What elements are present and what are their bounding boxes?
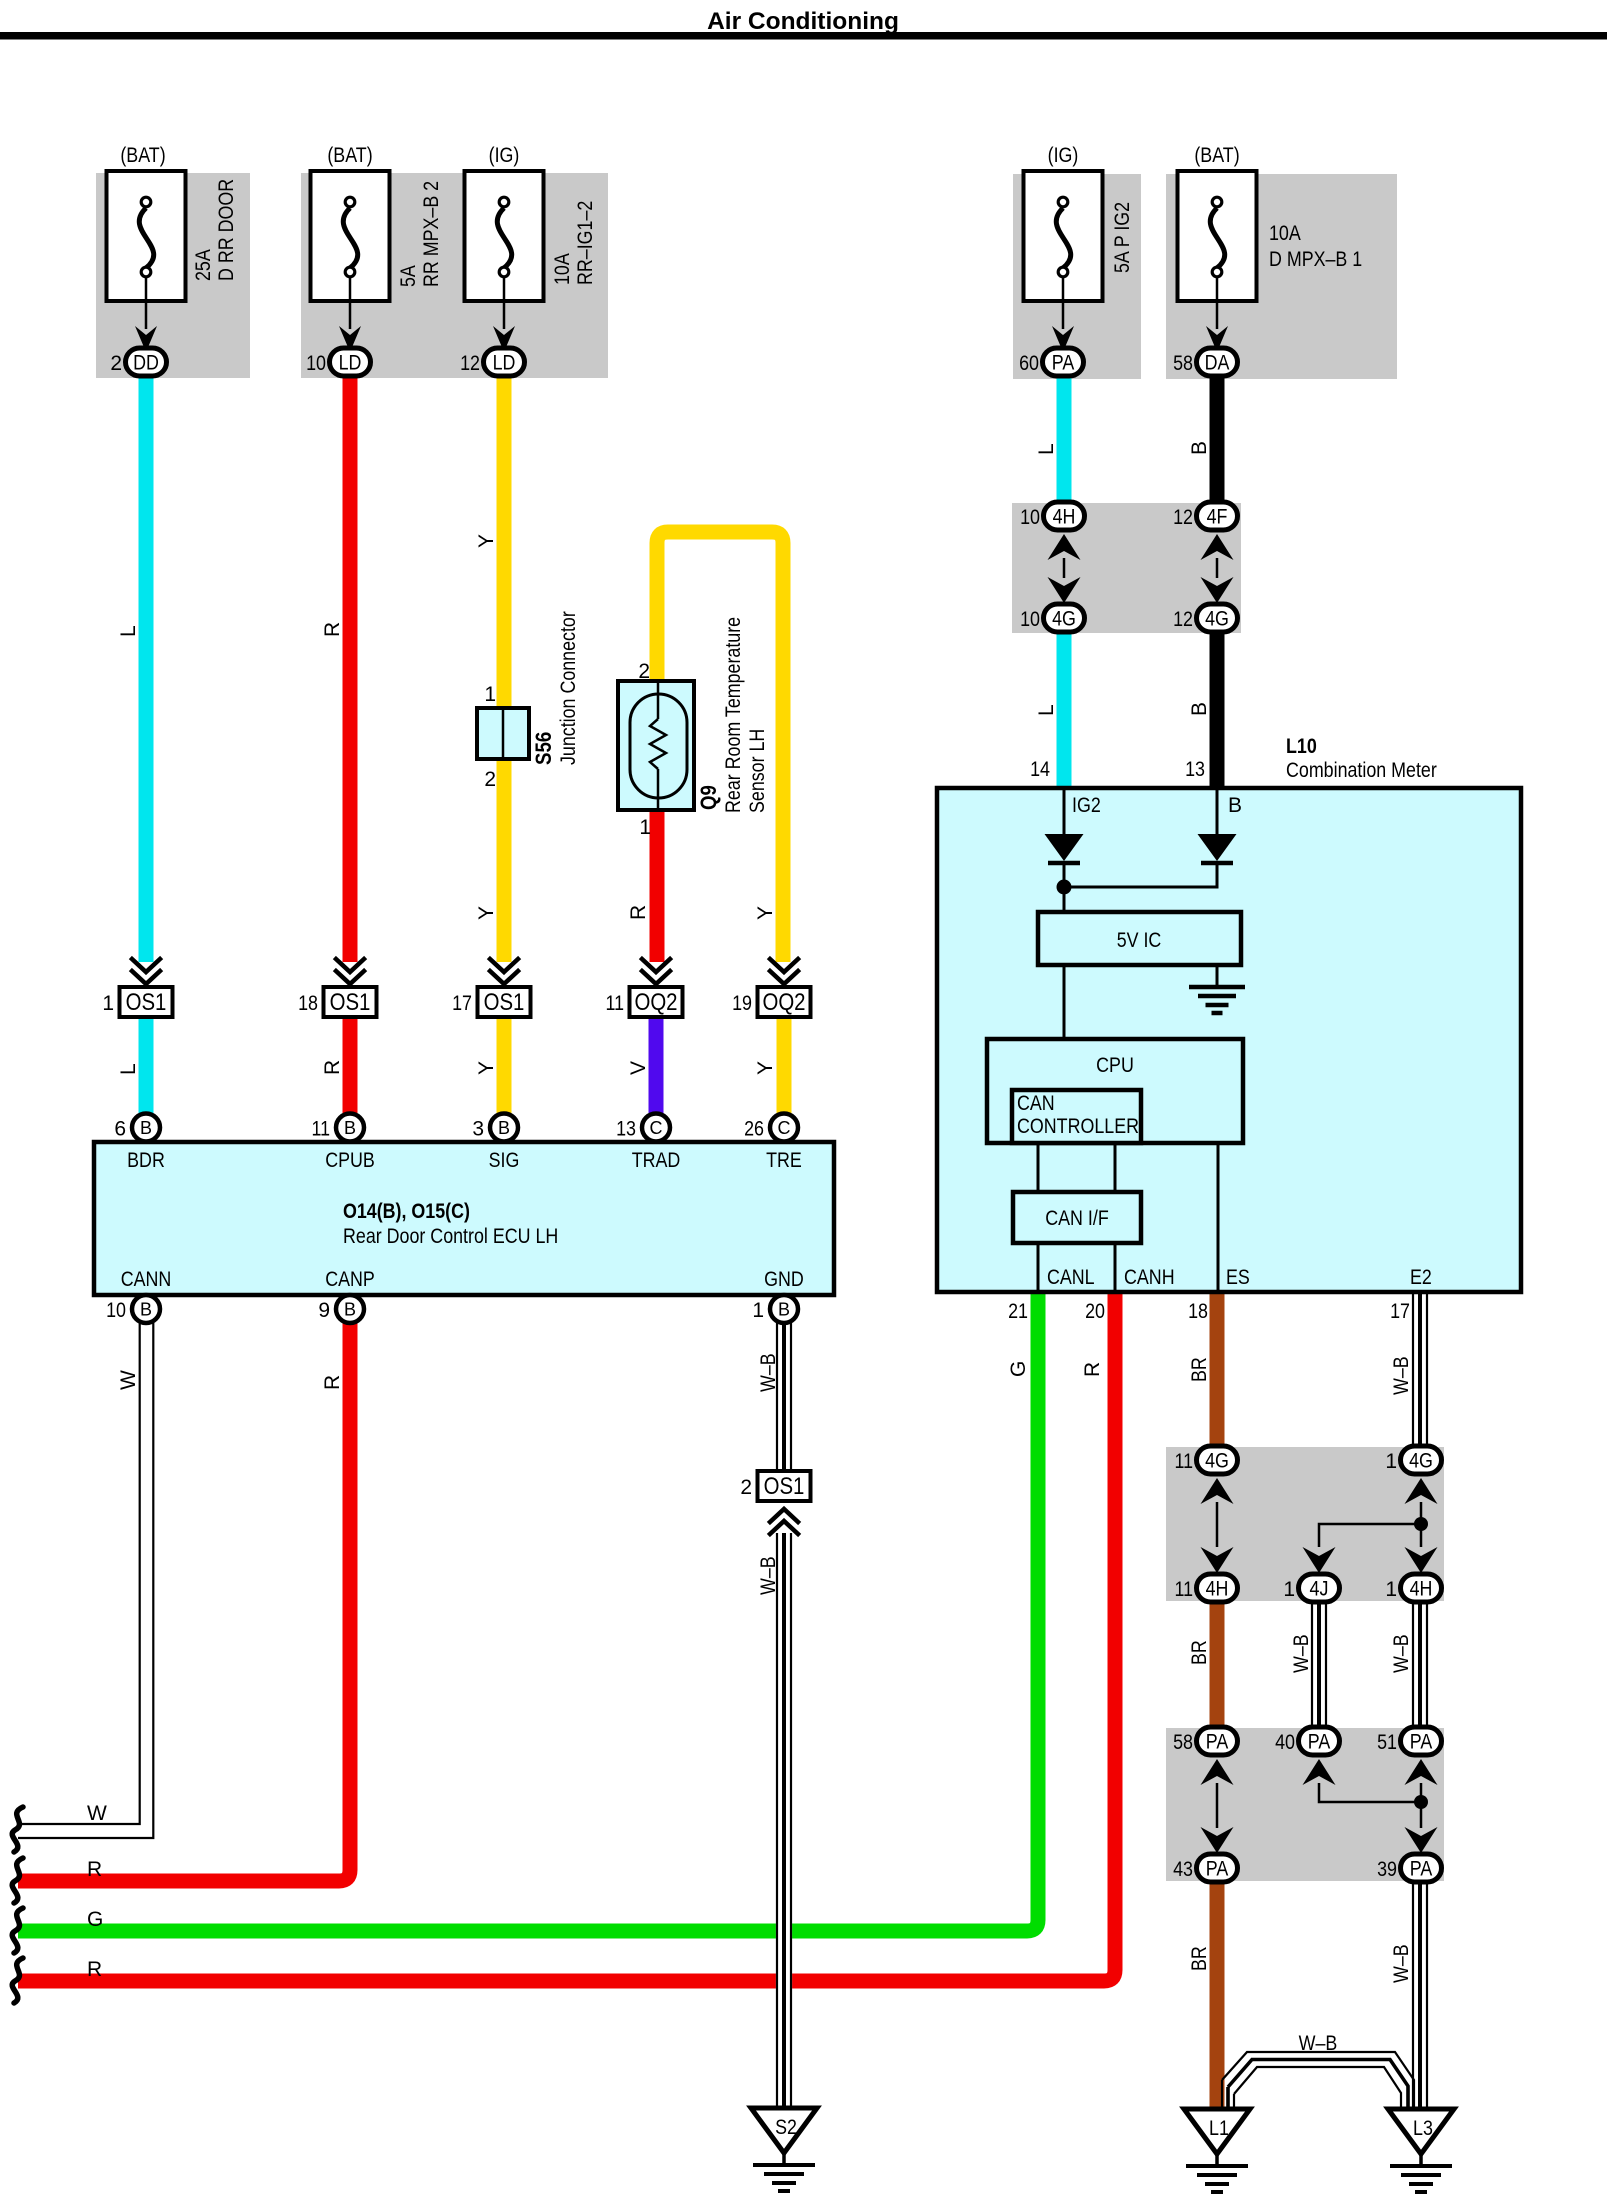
wire L (cyan) fuse D RR DOOR to OS1 pin 1 <box>139 374 154 962</box>
connector DA pin 58 <box>1173 348 1237 376</box>
wire diode D2 to junction <box>1065 864 1217 887</box>
wire Y (yellow) Q9 pin 2 up and over to OQ2 pin 19 <box>657 532 783 962</box>
svg-text:10: 10 <box>1020 506 1040 529</box>
regulator 5V IC <box>1038 912 1241 965</box>
wire B (black) fuse D MPX-B 1 to connector 4F pin 12 <box>1210 374 1225 505</box>
svg-text:Sensor LH: Sensor LH <box>746 729 769 813</box>
svg-text:CPU: CPU <box>1096 1054 1134 1077</box>
svg-text:4G: 4G <box>1052 608 1076 631</box>
svg-text:S2: S2 <box>775 2116 797 2139</box>
svg-text:(BAT): (BAT) <box>120 144 165 167</box>
fuse 10A RR-IG1-2 <box>465 144 598 352</box>
svg-text:RR MPX–B 2: RR MPX–B 2 <box>420 181 443 287</box>
thermistor Q9 Rear Room Temperature Sensor LH <box>618 617 769 839</box>
svg-text:11: 11 <box>1175 1578 1194 1601</box>
svg-text:9: 9 <box>318 1299 330 1322</box>
wire R (red) CANH pin 20 to left edge <box>18 1292 1115 1981</box>
svg-text:13: 13 <box>1185 758 1205 781</box>
svg-text:11: 11 <box>606 992 625 1015</box>
svg-text:GND: GND <box>764 1268 804 1291</box>
harness break R <box>12 1858 23 1903</box>
junction connector S56 <box>477 611 580 791</box>
ground S2 <box>751 2108 817 2191</box>
Rear Door Control ECU LH box O14/O15 <box>94 1142 834 1295</box>
svg-text:W: W <box>117 1370 140 1390</box>
svg-text:S56: S56 <box>531 732 556 765</box>
ground L3 <box>1388 2109 1454 2192</box>
svg-text:4G: 4G <box>1205 608 1229 631</box>
svg-text:R: R <box>87 1958 102 1981</box>
svg-text:10A: 10A <box>551 253 574 285</box>
svg-text:L: L <box>1035 443 1058 455</box>
svg-text:TRAD: TRAD <box>632 1149 681 1172</box>
wire Y (yellow) OS1 to ECU pin 3 SIG <box>497 1017 512 1116</box>
connector LD pin 12 <box>460 348 524 376</box>
svg-text:58: 58 <box>1173 352 1193 375</box>
relay block shading (rear J/B middle) <box>301 173 608 378</box>
ECU pin 9 CANP <box>318 1295 364 1323</box>
meter internal wire IG2 <box>1063 790 1066 836</box>
svg-text:18: 18 <box>298 992 318 1015</box>
svg-text:V: V <box>627 1061 650 1075</box>
svg-text:LD: LD <box>339 352 362 375</box>
fuse 5A P IG2 <box>1024 144 1135 352</box>
connector DD pin 2 <box>110 348 166 376</box>
connector block shading 4H/4F-4G top right <box>1012 503 1241 633</box>
svg-text:B: B <box>1228 794 1242 817</box>
svg-text:R: R <box>627 905 650 920</box>
svg-text:C: C <box>650 1118 663 1138</box>
svg-text:2: 2 <box>638 660 650 683</box>
svg-text:R: R <box>321 622 344 637</box>
connector 4H pin 10 <box>1020 502 1084 530</box>
svg-text:12: 12 <box>460 352 480 375</box>
relay block shading (driver side J/B left) <box>96 173 250 378</box>
svg-text:B: B <box>140 1118 152 1138</box>
connector OS1 pin 18 <box>298 987 376 1017</box>
svg-text:1: 1 <box>639 816 651 839</box>
svg-text:4H: 4H <box>1053 506 1076 529</box>
splice chevron out of OS1 pin 2 <box>770 1509 798 1534</box>
svg-text:19: 19 <box>732 992 752 1015</box>
svg-text:R: R <box>321 1375 344 1390</box>
ECU pin 11 CPUB <box>312 1114 365 1142</box>
svg-text:26: 26 <box>744 1118 764 1141</box>
svg-text:R: R <box>87 1858 102 1881</box>
svg-text:(BAT): (BAT) <box>327 144 372 167</box>
connector 4H pin 11 <box>1175 1574 1238 1602</box>
wire G (green) CANL pin 21 to left edge <box>18 1292 1038 1931</box>
wire BR (brown) connector PA pin 43 to ground L1 <box>1210 1879 1225 2110</box>
svg-text:CONTROLLER: CONTROLLER <box>1017 1115 1139 1138</box>
meter internal wire B <box>1216 790 1219 836</box>
svg-text:PA: PA <box>1206 1858 1229 1881</box>
CAN I/F box <box>1013 1192 1141 1243</box>
svg-text:BDR: BDR <box>127 1149 165 1172</box>
svg-text:12: 12 <box>1173 608 1193 631</box>
svg-text:17: 17 <box>1390 1300 1410 1323</box>
svg-text:W–B: W–B <box>757 1556 780 1595</box>
wire L (cyan) OS1 to ECU pin 6 BDR <box>139 1017 154 1116</box>
svg-text:B: B <box>344 1118 356 1138</box>
svg-text:Air Conditioning: Air Conditioning <box>707 8 899 35</box>
fuse 5A RR MPX-B 2 <box>311 144 444 352</box>
connector LD pin 10 <box>306 348 370 376</box>
connector OS1 pin 2 (GND wire) <box>740 1471 810 1501</box>
ground L1 <box>1184 2109 1250 2192</box>
connector OS1 pin 1 <box>102 987 172 1017</box>
svg-text:4G: 4G <box>1205 1450 1229 1473</box>
svg-text:D MPX–B 1: D MPX–B 1 <box>1269 248 1362 271</box>
wire L (cyan) fuse P IG2 to connector 4H pin 10 <box>1057 374 1072 505</box>
wire CAN I/F to CANH pin <box>1114 1243 1117 1290</box>
svg-text:10: 10 <box>1020 608 1040 631</box>
svg-text:W–B: W–B <box>1299 2032 1338 2055</box>
svg-text:Y: Y <box>754 1061 777 1075</box>
svg-text:20: 20 <box>1085 1300 1105 1323</box>
svg-text:L3: L3 <box>1413 2117 1433 2140</box>
svg-text:(IG): (IG) <box>1048 144 1079 167</box>
wire R (red) OS1 to ECU pin 11 CPUB <box>343 1017 358 1116</box>
svg-text:OS1: OS1 <box>764 1473 805 1500</box>
combination meter L10 box <box>937 735 1521 1292</box>
ECU pin 26 TRE <box>744 1114 798 1142</box>
svg-text:4H: 4H <box>1410 1578 1433 1601</box>
svg-text:OQ2: OQ2 <box>762 989 805 1016</box>
svg-text:13: 13 <box>616 1118 636 1141</box>
splice chevron into OS1 pin 17 <box>490 959 518 984</box>
fuse 25A D RR DOOR <box>107 144 239 352</box>
svg-text:11: 11 <box>1175 1450 1194 1473</box>
svg-text:6: 6 <box>114 1118 126 1141</box>
wire diode D1 to 5V IC <box>1063 864 1066 912</box>
svg-text:BR: BR <box>1188 1946 1211 1971</box>
svg-text:4F: 4F <box>1207 506 1228 529</box>
svg-text:1: 1 <box>102 992 114 1015</box>
connector OQ2 pin 11 <box>606 987 683 1017</box>
svg-text:B: B <box>778 1300 790 1320</box>
mating arrows 4F-4G <box>1201 534 1234 603</box>
svg-text:W–B: W–B <box>1390 1634 1413 1673</box>
svg-text:BR: BR <box>1188 1357 1211 1382</box>
svg-text:39: 39 <box>1377 1858 1397 1881</box>
svg-text:1: 1 <box>752 1299 764 1322</box>
wire 5V IC to CPU <box>1063 965 1066 1040</box>
connector 4G pin 1 <box>1385 1446 1441 1474</box>
harness break G <box>12 1908 23 1953</box>
wire W-B connector PA pin 39 to ground L3 <box>1412 1879 1428 2112</box>
connector OS1 pin 17 <box>452 987 530 1017</box>
svg-text:CPUB: CPUB <box>325 1149 375 1172</box>
splice chevron into OS1 pin 18 <box>336 959 364 984</box>
harness break W <box>12 1807 23 1852</box>
connector PA pin 51 <box>1377 1727 1441 1755</box>
connector OQ2 pin 19 <box>732 987 810 1017</box>
wire V (violet) OQ2 to ECU pin 13 TRAD <box>649 1017 664 1116</box>
svg-text:4H: 4H <box>1206 1578 1229 1601</box>
connector block shading 4G-4H/4J lower right <box>1166 1447 1444 1601</box>
connector PA pin 58 <box>1173 1727 1237 1755</box>
svg-text:W: W <box>87 1802 107 1825</box>
wire 5V IC to internal ground <box>1216 965 1219 985</box>
svg-text:25A: 25A <box>192 249 215 281</box>
ECU pin 13 TRAD <box>616 1114 670 1142</box>
svg-text:4G: 4G <box>1409 1450 1433 1473</box>
svg-text:CANP: CANP <box>325 1268 375 1291</box>
svg-text:21: 21 <box>1008 1300 1028 1323</box>
wire R (red) Q9 pin 1 to OQ2 pin 11 <box>650 808 665 962</box>
svg-text:W–B: W–B <box>1290 1634 1313 1673</box>
svg-text:5V IC: 5V IC <box>1117 929 1162 952</box>
harness break R <box>12 1958 23 2003</box>
wire CPU to ES pin <box>1217 1143 1220 1290</box>
svg-text:CAN: CAN <box>1017 1092 1055 1115</box>
wire R (red) fuse RR MPX-B 2 to OS1 pin 18 <box>343 374 358 962</box>
wire W-B connector 4H pin 1 to connector PA pin 51 <box>1412 1599 1428 1730</box>
svg-text:2: 2 <box>740 1476 752 1499</box>
wire CAN controller to CAN I/F (right) <box>1114 1143 1117 1192</box>
svg-text:Y: Y <box>754 906 777 920</box>
ECU pin 1 GND <box>752 1295 798 1323</box>
svg-text:TRE: TRE <box>766 1149 802 1172</box>
relay block shading (P IG2) <box>1013 174 1141 379</box>
connector 4G pin 11 <box>1175 1446 1238 1474</box>
wire W-B ground link L1 to L3 <box>1222 2052 1414 2109</box>
svg-text:43: 43 <box>1173 1858 1193 1881</box>
mating arrows 4H-4G <box>1048 534 1081 603</box>
svg-text:OQ2: OQ2 <box>634 989 677 1016</box>
wire B (black) connector 4G to combination meter pin 13 <box>1210 630 1225 788</box>
svg-text:14: 14 <box>1030 758 1050 781</box>
svg-text:D RR DOOR: D RR DOOR <box>215 179 238 281</box>
mating arrows 4G-4H pin 11 <box>1201 1478 1234 1573</box>
svg-text:BR: BR <box>1188 1640 1211 1665</box>
svg-text:Y: Y <box>475 1061 498 1075</box>
wire Y (yellow) fuse RR-IG1-2 to junction S56 <box>497 374 512 710</box>
svg-text:PA: PA <box>1206 1731 1229 1754</box>
svg-text:B: B <box>1188 441 1211 455</box>
svg-text:RR–IG1–2: RR–IG1–2 <box>574 201 597 285</box>
svg-text:PA: PA <box>1410 1731 1433 1754</box>
wire W-B ECU GND pin 1 to OS1 pin 2 <box>777 1323 791 1472</box>
svg-text:ES: ES <box>1226 1266 1250 1289</box>
connector PA pin 39 <box>1377 1854 1441 1882</box>
svg-text:1: 1 <box>484 683 496 706</box>
svg-text:G: G <box>87 1908 103 1931</box>
svg-text:(BAT): (BAT) <box>1194 144 1239 167</box>
svg-text:1: 1 <box>1385 1578 1397 1601</box>
svg-text:2: 2 <box>110 352 122 375</box>
wire W-B connector 4J pin 1 to connector PA pin 40 <box>1311 1599 1327 1730</box>
connector 4G pin 10 <box>1020 604 1084 632</box>
svg-text:5A: 5A <box>397 265 420 287</box>
svg-text:W–B: W–B <box>757 1353 780 1392</box>
svg-text:1: 1 <box>1385 1450 1397 1473</box>
svg-text:CANN: CANN <box>121 1268 172 1291</box>
svg-text:CAN I/F: CAN I/F <box>1045 1207 1109 1230</box>
svg-text:SIG: SIG <box>489 1149 520 1172</box>
svg-text:R: R <box>321 1060 344 1075</box>
svg-text:Combination Meter: Combination Meter <box>1286 759 1437 782</box>
diode D1 (IG2) <box>1045 834 1084 863</box>
svg-text:L: L <box>117 1063 140 1075</box>
svg-text:C: C <box>778 1118 791 1138</box>
svg-text:B: B <box>344 1300 356 1320</box>
svg-text:10: 10 <box>106 1299 126 1322</box>
wire BR (brown) ES pin 18 to connector 4G pin 11 <box>1210 1292 1225 1449</box>
title rule <box>0 32 1607 40</box>
svg-text:3: 3 <box>472 1118 484 1141</box>
ECU pin 6 BDR <box>114 1114 160 1142</box>
svg-text:E2: E2 <box>1410 1266 1432 1289</box>
svg-text:L10: L10 <box>1286 735 1317 758</box>
svg-text:B: B <box>1188 702 1211 716</box>
svg-text:PA: PA <box>1052 352 1075 375</box>
svg-text:L: L <box>117 625 140 637</box>
ECU pin 10 CANN <box>106 1295 160 1323</box>
diode D2 (B) <box>1198 834 1237 863</box>
connector 4G pin 12 <box>1173 604 1237 632</box>
svg-text:OS1: OS1 <box>330 989 371 1016</box>
svg-text:1: 1 <box>1283 1578 1295 1601</box>
wire W (white) ECU CANN pin 10 to left edge <box>18 1323 153 1838</box>
svg-text:10A: 10A <box>1269 222 1301 245</box>
wire L (cyan) connector 4G to combination meter pin 14 <box>1057 630 1072 788</box>
fuse 10A D MPX-B 1 <box>1178 144 1363 352</box>
wire CAN controller to CAN I/F (left) <box>1037 1143 1040 1192</box>
svg-text:10: 10 <box>306 352 326 375</box>
svg-text:DA: DA <box>1205 352 1230 375</box>
splice chevron into OS1 pin 1 <box>132 959 160 984</box>
svg-text:Junction Connector: Junction Connector <box>557 611 580 765</box>
svg-text:58: 58 <box>1173 1731 1193 1754</box>
connector block shading PA lower right <box>1166 1728 1444 1881</box>
svg-text:O14(B), O15(C): O14(B), O15(C) <box>343 1200 470 1223</box>
svg-text:Rear Room Temperature: Rear Room Temperature <box>722 617 745 813</box>
junction node <box>1057 880 1072 895</box>
svg-text:51: 51 <box>1377 1731 1397 1754</box>
svg-text:5A P IG2: 5A P IG2 <box>1111 202 1134 273</box>
wire W-B OS1 pin 2 to ground S2 <box>776 1533 792 2112</box>
svg-text:CANH: CANH <box>1124 1266 1175 1289</box>
svg-text:IG2: IG2 <box>1072 794 1101 817</box>
svg-text:2: 2 <box>484 768 496 791</box>
svg-text:40: 40 <box>1275 1731 1295 1754</box>
connector 4J pin 1 <box>1283 1574 1339 1602</box>
svg-text:Y: Y <box>475 906 498 920</box>
connector 4F pin 12 <box>1173 502 1237 530</box>
svg-text:17: 17 <box>452 992 472 1015</box>
svg-text:G: G <box>1007 1361 1030 1377</box>
wire Y (yellow) OQ2 to ECU pin 26 TRE <box>777 1017 792 1116</box>
svg-text:18: 18 <box>1188 1300 1208 1323</box>
svg-text:Y: Y <box>475 534 498 548</box>
CAN CONTROLLER box <box>1012 1090 1141 1143</box>
splice chevron into OQ2 pin 11 <box>642 959 670 984</box>
svg-text:60: 60 <box>1019 352 1039 375</box>
svg-text:W–B: W–B <box>1390 1356 1413 1395</box>
svg-text:R: R <box>1081 1362 1104 1377</box>
svg-text:LD: LD <box>493 352 516 375</box>
splice chevron into OQ2 pin 19 <box>770 959 798 984</box>
title <box>707 8 899 35</box>
svg-text:Q9: Q9 <box>696 785 721 810</box>
svg-text:Rear Door Control ECU LH: Rear Door Control ECU LH <box>343 1225 558 1248</box>
connector 4H pin 1 <box>1385 1574 1441 1602</box>
svg-text:B: B <box>140 1300 152 1320</box>
svg-text:DD: DD <box>133 352 159 375</box>
wire BR (brown) connector 4H to connector PA pin 58 <box>1210 1599 1225 1730</box>
internal ground symbol <box>1189 987 1245 1013</box>
connector PA pin 40 <box>1275 1727 1339 1755</box>
svg-text:(IG): (IG) <box>489 144 520 167</box>
wire Y (yellow) S56 to OS1 pin 17 <box>497 757 512 962</box>
svg-text:B: B <box>498 1118 510 1138</box>
svg-text:OS1: OS1 <box>126 989 167 1016</box>
svg-text:4J: 4J <box>1310 1578 1329 1601</box>
svg-text:11: 11 <box>312 1118 331 1141</box>
svg-text:CANL: CANL <box>1047 1266 1095 1289</box>
svg-text:12: 12 <box>1173 506 1193 529</box>
svg-text:W–B: W–B <box>1390 1944 1413 1983</box>
wire W-B combination meter E2 pin 17 to connector 4G pin 1 <box>1412 1292 1428 1449</box>
svg-text:OS1: OS1 <box>484 989 525 1016</box>
svg-text:L1: L1 <box>1209 2117 1229 2140</box>
branch 4G pin 1 to 4J and 4H <box>1303 1478 1438 1573</box>
svg-text:PA: PA <box>1308 1731 1331 1754</box>
mating arrows PA 58-43 <box>1201 1759 1234 1853</box>
svg-text:PA: PA <box>1410 1858 1433 1881</box>
ECU pin 3 SIG <box>472 1114 518 1142</box>
wire CAN I/F to CANL pin <box>1037 1243 1040 1290</box>
relay block shading (D MPX-B 1) <box>1166 174 1397 379</box>
connector PA pin 43 <box>1173 1854 1237 1882</box>
wire R (red) ECU CANP pin 9 to left edge <box>18 1323 350 1881</box>
connector PA pin 60 <box>1019 348 1083 376</box>
branch PA 40/51 to 39 <box>1303 1759 1438 1853</box>
CPU box <box>987 1039 1243 1143</box>
svg-text:L: L <box>1035 704 1058 716</box>
